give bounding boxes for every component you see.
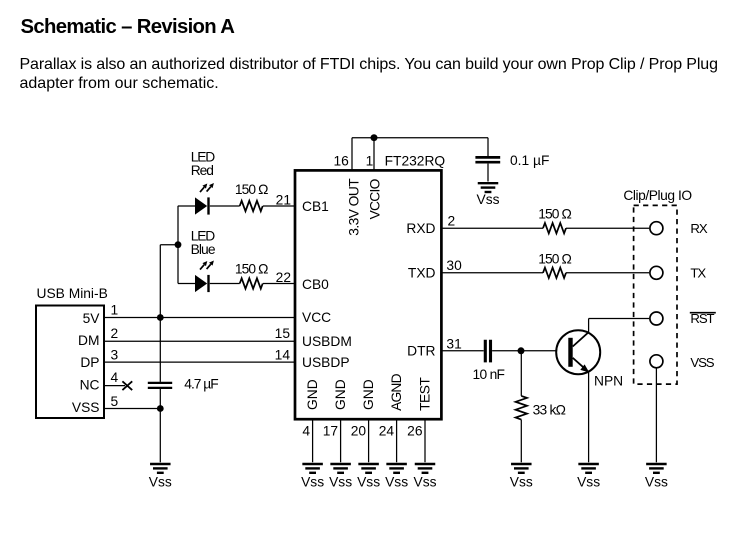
svg-text:3: 3 [111, 348, 119, 363]
svg-text:0.1 µF: 0.1 µF [510, 153, 549, 168]
svg-text:DTR: DTR [407, 343, 435, 358]
svg-text:2: 2 [448, 214, 456, 229]
svg-text:Vss: Vss [414, 475, 437, 490]
svg-text:Schematic – Revision A: Schematic – Revision A [21, 16, 236, 38]
svg-text:4: 4 [111, 370, 119, 385]
svg-text:14: 14 [275, 348, 291, 363]
svg-text:Vss: Vss [645, 475, 668, 490]
svg-text:Vss: Vss [329, 475, 352, 490]
svg-text:Clip/Plug IO: Clip/Plug IO [623, 188, 692, 203]
svg-text:VSS: VSS [690, 355, 714, 370]
svg-text:VSS: VSS [72, 400, 100, 415]
svg-text:16: 16 [333, 153, 349, 168]
svg-text:5: 5 [111, 394, 119, 409]
svg-text:USBDP: USBDP [302, 355, 350, 370]
svg-text:GND: GND [361, 379, 376, 410]
svg-text:DM: DM [78, 333, 99, 348]
svg-text:2: 2 [111, 326, 119, 341]
svg-text:adapter from our schematic.: adapter from our schematic. [20, 75, 219, 92]
svg-text:Vss: Vss [149, 475, 172, 490]
svg-text:TX: TX [690, 266, 706, 281]
svg-text:30: 30 [446, 258, 462, 273]
svg-text:22: 22 [276, 270, 291, 285]
svg-text:21: 21 [276, 192, 291, 207]
svg-text:TEST: TEST [418, 377, 433, 411]
svg-text:24: 24 [379, 424, 395, 439]
svg-text:150 Ω: 150 Ω [235, 182, 268, 197]
svg-text:FT232RQ: FT232RQ [385, 154, 446, 169]
svg-text:GND: GND [305, 379, 320, 410]
svg-text:20: 20 [351, 424, 367, 439]
svg-text:17: 17 [323, 424, 338, 439]
svg-text:VCCIO: VCCIO [368, 178, 383, 219]
svg-text:VCC: VCC [302, 310, 331, 325]
svg-text:Vss: Vss [385, 475, 408, 490]
svg-text:Vss: Vss [510, 475, 533, 490]
svg-text:Vss: Vss [357, 475, 380, 490]
svg-text:150 Ω: 150 Ω [235, 261, 268, 276]
svg-text:5V: 5V [83, 311, 101, 326]
svg-text:CB1: CB1 [302, 199, 329, 214]
svg-text:TXD: TXD [408, 266, 436, 281]
svg-text:10 nF: 10 nF [473, 367, 505, 382]
svg-text:Vss: Vss [477, 192, 500, 207]
svg-text:NC: NC [80, 378, 100, 393]
svg-text:33 kΩ: 33 kΩ [533, 402, 566, 417]
svg-text:1: 1 [111, 303, 119, 318]
svg-text:Blue: Blue [191, 242, 216, 257]
svg-text:RXD: RXD [406, 221, 435, 236]
svg-text:NPN: NPN [594, 374, 623, 389]
svg-text:26: 26 [407, 424, 423, 439]
svg-text:Red: Red [191, 163, 213, 178]
svg-text:Parallax is also an authorized: Parallax is also an authorized distribut… [20, 56, 718, 73]
svg-text:31: 31 [446, 336, 461, 351]
svg-text:3.3V OUT: 3.3V OUT [346, 178, 361, 236]
svg-text:150 Ω: 150 Ω [538, 252, 571, 267]
svg-text:AGND: AGND [389, 373, 404, 410]
svg-text:RX: RX [690, 221, 707, 236]
svg-text:Vss: Vss [577, 475, 600, 490]
svg-text:1: 1 [366, 153, 374, 168]
svg-text:Vss: Vss [301, 475, 324, 490]
svg-text:150 Ω: 150 Ω [538, 207, 571, 222]
svg-text:CB0: CB0 [302, 277, 329, 292]
svg-text:4.7 µF: 4.7 µF [184, 376, 218, 391]
svg-text:USBDM: USBDM [302, 334, 352, 349]
svg-text:DP: DP [80, 355, 99, 370]
svg-text:USB Mini-B: USB Mini-B [37, 286, 108, 301]
svg-text:GND: GND [333, 379, 348, 410]
svg-text:15: 15 [275, 326, 291, 341]
svg-text:4: 4 [302, 424, 310, 439]
